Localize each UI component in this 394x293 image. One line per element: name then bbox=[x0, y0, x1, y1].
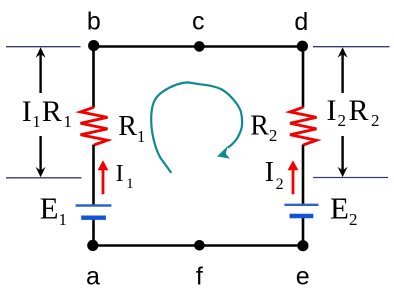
reference line left bottom bbox=[6, 177, 82, 179]
current arrow I1 bbox=[98, 160, 109, 194]
resistor R2 bbox=[290, 107, 317, 145]
svg-text:R2: R2 bbox=[250, 110, 277, 145]
reference line right top bbox=[313, 46, 390, 48]
svg-text:I2R2: I2R2 bbox=[327, 94, 380, 130]
battery E1 plate long bbox=[76, 204, 112, 206]
wire right branch R2-to-E2 bbox=[302, 145, 305, 206]
svg-text:d: d bbox=[294, 8, 308, 36]
wire top b-c-d bbox=[94, 45, 303, 48]
wire left branch R1-to-E1 bbox=[92, 145, 95, 207]
node d bbox=[297, 41, 308, 52]
battery E2 plate short bbox=[290, 214, 314, 218]
wire left branch E1-to-a bbox=[92, 218, 95, 246]
node e bbox=[297, 240, 308, 251]
node a bbox=[87, 240, 98, 251]
battery E1 plate short bbox=[81, 215, 106, 219]
current arrow I2 bbox=[288, 160, 299, 194]
reference line right bottom bbox=[313, 177, 388, 179]
wire right branch E2-to-e bbox=[302, 217, 305, 246]
svg-text:R1: R1 bbox=[118, 111, 145, 146]
resistor R1 bbox=[81, 107, 108, 145]
svg-text:I1R1: I1R1 bbox=[22, 95, 72, 131]
loop direction arrow bbox=[151, 82, 242, 172]
svg-text:c: c bbox=[192, 7, 205, 35]
reference line left top bbox=[6, 46, 81, 48]
svg-text:a: a bbox=[86, 263, 100, 291]
node b bbox=[88, 40, 99, 51]
svg-text:b: b bbox=[87, 7, 101, 35]
wire left branch b-to-R1 bbox=[92, 47, 95, 108]
measurement arrow right (voltage drop I2R2) bbox=[338, 47, 348, 177]
svg-text:E1: E1 bbox=[40, 190, 67, 229]
node c bbox=[194, 41, 205, 52]
svg-text:I2: I2 bbox=[265, 157, 284, 193]
wire bottom a-f-e bbox=[93, 244, 303, 247]
svg-text:E2: E2 bbox=[330, 190, 357, 229]
wire right branch d-to-R2 bbox=[302, 47, 305, 108]
node f bbox=[194, 240, 205, 251]
svg-text:I1: I1 bbox=[116, 161, 134, 192]
svg-text:e: e bbox=[296, 262, 310, 290]
measurement arrow left (voltage drop I1R1) bbox=[36, 47, 46, 177]
battery E2 plate long bbox=[284, 204, 318, 206]
svg-text:f: f bbox=[196, 263, 203, 291]
